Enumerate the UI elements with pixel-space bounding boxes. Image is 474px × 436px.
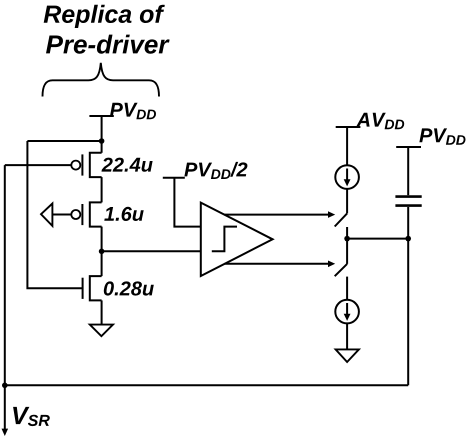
net label PVDD (top) [89,103,156,119]
wire bottom rail [5,384,408,386]
wire U1 bottom output [225,263,330,265]
op-amp U1 (comparator with hysteresis) [201,203,273,276]
wire input triangle to M2 gate [52,214,71,216]
wire PVDD bar to capacitor C1 [407,147,409,195]
node D (capacitor junction) [405,236,411,242]
net label AVDD [336,113,405,129]
input triangle (pre-driver input marker) [41,204,52,226]
wire I1 to switch S1 [346,189,348,214]
current source I1 [335,165,359,189]
current source I2 [335,300,359,324]
wire node A to M1 drain [101,141,103,153]
value label 0.28u [104,281,154,295]
wire M3 source to ground [101,300,103,324]
net label VSR [13,407,50,426]
ground (right) [336,349,359,362]
arrowhead VSR output [2,429,9,436]
wire node B to comparator input [102,250,201,252]
node C (output node junction) [344,236,350,242]
wire node C to node D [347,238,408,240]
node A (top junction) [99,138,105,144]
net label PVDD (right) [396,128,465,147]
wire M2 source to node B [101,227,103,252]
transistor M2 (PMOS 1.6u) [71,202,101,226]
wire M1 source to M2 drain [101,177,103,202]
wire VSR rail (left) [4,165,6,385]
wire VSR output stub [4,385,6,429]
wire node D down to bottom rail [407,239,409,386]
wire M1 gate to VSR rail [5,164,72,166]
wire node B to M3 drain [101,251,103,276]
wire left rail (feedback to NMOS gate) [27,141,82,288]
transistor M3 (NMOS 0.28u) [83,276,102,300]
wire AVDD to current source I1 [346,127,348,165]
wire C1 to node D [407,207,409,239]
wire I2 to ground [346,323,348,349]
ground (left) [90,325,113,337]
value label 22.4u [102,158,153,172]
brace under title [43,63,160,97]
wire U1 top output [224,214,329,216]
wire node C to switch S2 [346,239,348,264]
arrowhead top output [328,211,335,218]
wire node A to left rail [27,140,101,142]
switch S2 [335,264,347,300]
capacitor C1 [395,197,421,206]
arrowhead bottom output [328,261,335,268]
transistor M1 (PMOS 22.4u) [71,153,101,177]
value label 1.6u [104,207,143,221]
wire PVDD bar to node A [101,116,103,141]
net label PVDD/2 [163,162,248,179]
node E (VSR junction) [2,383,8,389]
title "Replica of Pre-driver" [44,5,170,54]
switch S1 [335,213,347,238]
wire PVDD/2 to comparator plus input [174,178,200,227]
node B (comparator input junction) [99,249,105,255]
